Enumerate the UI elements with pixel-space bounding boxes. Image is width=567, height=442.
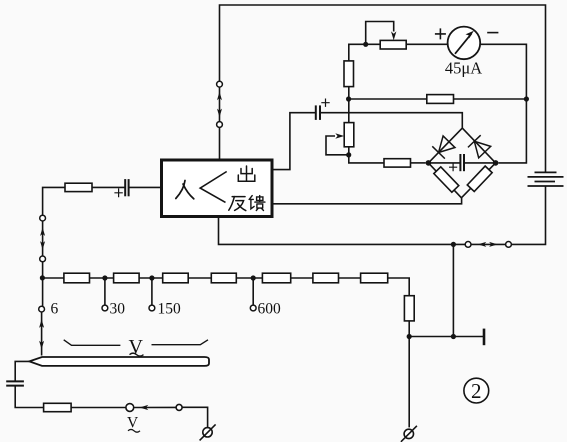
resistor ladder R2 [114, 273, 140, 283]
label ru (input) hanzi [176, 181, 194, 199]
jack upper of pair P1 [217, 81, 223, 87]
svg-text:30: 30 [110, 301, 126, 318]
tap jack 600 [250, 305, 256, 311]
wire feedback to bridge bottom [273, 198, 462, 204]
wire battery bottom to bottom rail [512, 186, 546, 244]
resistor ladder R1 [64, 273, 90, 283]
wire jack pair P2 shaft [42, 221, 44, 256]
resistor top chain vertical [344, 61, 354, 87]
wire line1 right [454, 98, 527, 100]
junction tap 150 [149, 275, 154, 280]
node bridge right vertex [493, 160, 499, 166]
jack lower of pair P1 [217, 122, 223, 128]
diode D2 upper-right [468, 135, 491, 158]
figure badge 2 [464, 378, 489, 403]
arrow left pair P5 [140, 405, 149, 410]
junction ladder left [40, 275, 45, 280]
diode bridge arms [428, 128, 495, 198]
arrow up pair P1 [217, 92, 222, 101]
meter 45uA [435, 27, 499, 78]
jack left of pair P5 [126, 404, 134, 412]
wire bottom resistor to jack [71, 407, 126, 409]
amp fan symbol [200, 172, 227, 203]
resistor bridge lower-right [467, 166, 492, 191]
wire cap to bottom rail [15, 386, 43, 408]
amplifier block [162, 160, 273, 217]
svg-text:V: V [127, 415, 139, 432]
jack left of pair P4 [465, 242, 471, 248]
arrow up pair P2 [40, 227, 45, 236]
resistor ladder R6 [313, 273, 339, 283]
tap jack 150 [149, 305, 155, 311]
capacitor probe series [6, 381, 24, 385]
junction tap 600 [251, 275, 256, 280]
arrow down probe link [39, 341, 44, 350]
wire ladder end down to R8 [388, 278, 410, 296]
wire pot to meter [406, 43, 447, 45]
capacitor bridge (electrolytic) [428, 154, 495, 171]
probe bar [29, 357, 209, 366]
resistor bottom probe [44, 403, 72, 411]
arrow down pair P1 [217, 109, 222, 118]
resistor vertical R8 [404, 296, 414, 321]
svg-text:600: 600 [258, 301, 282, 318]
wire bottom rail from amp [219, 217, 466, 245]
arrow left pair P4 [478, 242, 487, 247]
arrow pot P1 wiper [391, 31, 396, 40]
junction ground rail mid [451, 334, 456, 339]
wire input resistor to cap [92, 186, 125, 188]
junction meter return [524, 96, 529, 101]
resistor meter shunt [427, 95, 454, 104]
wire tap 150 [151, 278, 153, 305]
wire meter line left [349, 44, 380, 61]
junction chain to shunt resistor [346, 96, 351, 101]
wire to ladder [42, 262, 44, 307]
chassis ground bar [483, 329, 486, 346]
wire jack P5 shaft [134, 406, 176, 408]
jack right of pair P4 [506, 242, 512, 248]
wire R8 to ground rail and output jack [408, 321, 410, 428]
battery [528, 172, 564, 186]
junction pot P2 wiper tie [346, 152, 351, 157]
label kui (feedback char 2) hanzi [249, 196, 265, 211]
resistor ladder R5 [262, 273, 290, 283]
wire jack gap bottom rail [471, 243, 505, 245]
arrow up probe link [39, 319, 44, 328]
wire ground rail [409, 336, 484, 338]
capacitor input (electrolytic) [114, 179, 128, 197]
resistor input series [65, 183, 92, 191]
terminal slashed bottom-left [200, 424, 216, 440]
wire junction down to ground rail [452, 244, 454, 336]
svg-text:6: 6 [51, 301, 59, 318]
junction bottom rail [451, 242, 456, 247]
wire input corner [43, 187, 65, 215]
wire top loop [220, 5, 546, 172]
junction tap 30 [102, 275, 107, 280]
diode D1 upper-left [432, 136, 455, 159]
terminal slashed bottom-right [401, 426, 417, 442]
wire line1 meter shunt [349, 98, 427, 100]
svg-text:150: 150 [158, 301, 182, 318]
wire pot2 bottom to bridge resistor [349, 147, 384, 163]
wire chain resistor to junction [348, 87, 350, 123]
jack right of pair P5 [176, 404, 182, 410]
wire probe tip to cap [15, 361, 29, 381]
wire resistor to bridge left vertex [411, 162, 426, 164]
junction pot P1 tap [363, 42, 368, 47]
wire amp output up to cap [273, 113, 316, 170]
wire input left [129, 186, 162, 188]
jack upper of pair P2 [40, 215, 46, 221]
resistor ladder R7 [361, 273, 388, 283]
wire tap 600 [252, 278, 254, 305]
wire jack P3 shaft to probe [41, 312, 43, 356]
label chu (output) hanzi [238, 166, 255, 181]
potentiometer P2 body [344, 123, 354, 147]
junction ground rail left [407, 334, 412, 339]
resistor ladder R3 [163, 273, 189, 283]
wire to output terminal [182, 407, 208, 427]
wire meter to right vertical down to bridge [480, 44, 526, 163]
tap jack 30 [102, 305, 108, 311]
potentiometer P2 wiper loop [326, 136, 349, 155]
jack terminal 6 with probe arrows [39, 306, 45, 312]
capacitor output coupling (electrolytic) [316, 99, 330, 120]
potentiometer P1 body [380, 40, 406, 49]
resistor bridge input [384, 159, 411, 167]
arrow right pair P4 [489, 242, 498, 247]
node bridge left vertex [426, 160, 432, 166]
jack lower of pair P2 [40, 256, 46, 262]
wire cap to bridge top [320, 113, 462, 128]
potentiometer P1 wiper loop [366, 22, 394, 45]
wire ladder rail segments [42, 277, 64, 279]
label fan (feedback char 1) hanzi [229, 197, 246, 211]
probe brace with V label [64, 340, 208, 346]
svg-text:45μA: 45μA [445, 58, 482, 77]
resistor ladder R4 [211, 273, 236, 283]
arrow down pair P2 [40, 241, 45, 250]
wire tap 30 [104, 278, 106, 305]
svg-text:2: 2 [471, 379, 482, 403]
arrow pot P2 wiper [335, 133, 344, 138]
resistor bridge lower-left [434, 167, 459, 192]
